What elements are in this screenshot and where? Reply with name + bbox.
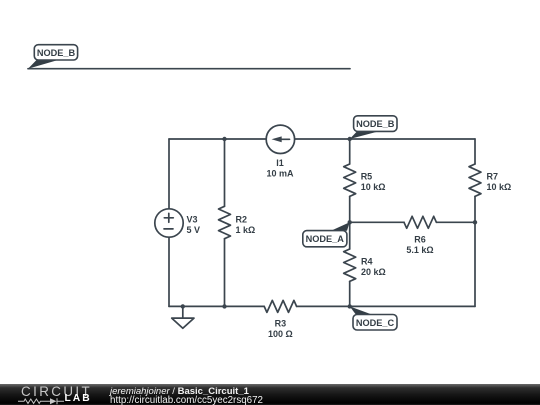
svg-text:R3: R3 xyxy=(275,319,287,329)
label R3 value xyxy=(268,319,293,340)
voltage source V3 xyxy=(155,209,183,237)
svg-text:10 kΩ: 10 kΩ xyxy=(361,182,386,192)
junction node NODE_B xyxy=(348,137,352,141)
logo LAB wordmark xyxy=(65,394,92,404)
label R2 value xyxy=(236,215,256,236)
svg-text:20 kΩ: 20 kΩ xyxy=(361,267,386,277)
svg-text:I1: I1 xyxy=(276,158,284,168)
logo wire with resistor and diode xyxy=(17,397,67,405)
svg-text:1 kΩ: 1 kΩ xyxy=(236,225,256,235)
junction node NODE_C xyxy=(348,304,352,308)
ground xyxy=(172,306,194,328)
footer title text xyxy=(110,387,249,396)
svg-text:V3: V3 xyxy=(187,215,198,225)
label R6 value xyxy=(406,234,433,255)
node label NODE_B (top rail) xyxy=(350,116,397,139)
resistor R4 xyxy=(344,249,356,281)
resistor R3 xyxy=(264,300,296,312)
svg-text:NODE_C: NODE_C xyxy=(356,318,395,328)
node label NODE_B stub (top-left) xyxy=(28,45,78,69)
wire R7 leads xyxy=(474,139,476,222)
svg-text:R2: R2 xyxy=(236,215,248,225)
svg-text:NODE_A: NODE_A xyxy=(306,234,345,244)
wire left vertical V3 branch xyxy=(168,139,170,306)
wire NODE_B stub top-left xyxy=(28,68,350,70)
svg-text:NODE_B: NODE_B xyxy=(37,48,76,58)
svg-text:R5: R5 xyxy=(361,172,373,182)
svg-text:5.1 kΩ: 5.1 kΩ xyxy=(406,245,433,255)
node label NODE_A xyxy=(303,222,350,247)
svg-text:NODE_B: NODE_B xyxy=(356,119,395,129)
svg-text:R6: R6 xyxy=(414,234,426,244)
label R7 value xyxy=(487,172,512,193)
junction node NODE_A xyxy=(348,220,352,224)
label R5 value xyxy=(361,172,386,193)
junction node ground xyxy=(181,304,185,308)
svg-text:10 mA: 10 mA xyxy=(266,168,294,178)
resistor R6 xyxy=(404,216,436,228)
node label NODE_C xyxy=(350,306,397,330)
junction node R2 bottom xyxy=(222,304,226,308)
wire bottom rail leads around R3 xyxy=(169,305,475,307)
svg-text:5 V: 5 V xyxy=(187,225,201,235)
footer bar xyxy=(0,384,540,405)
label R4 value xyxy=(361,257,386,278)
junction node R6/R7 right xyxy=(473,220,477,224)
svg-text:100 Ω: 100 Ω xyxy=(268,329,293,339)
logo CIRCUIT wordmark xyxy=(21,385,92,398)
label I1 value xyxy=(266,158,294,178)
wire right vertical down to bottom rail xyxy=(474,222,476,306)
wire R4 leads xyxy=(349,222,351,306)
junction node at R2 top xyxy=(222,137,226,141)
resistor R5 xyxy=(344,164,356,196)
svg-text:10 kΩ: 10 kΩ xyxy=(487,182,512,192)
footer url text xyxy=(110,396,263,405)
wire R5 leads xyxy=(349,139,351,222)
resistor R2 xyxy=(219,206,231,238)
wire R6 leads xyxy=(350,221,475,223)
resistor R7 xyxy=(469,164,481,196)
wire R2 branch leads xyxy=(224,139,226,306)
svg-text:R7: R7 xyxy=(487,172,499,182)
wire top rail NODE_B xyxy=(169,138,475,140)
current source I1 xyxy=(266,125,294,153)
svg-text:R4: R4 xyxy=(361,257,373,267)
label V3 value xyxy=(187,215,201,236)
